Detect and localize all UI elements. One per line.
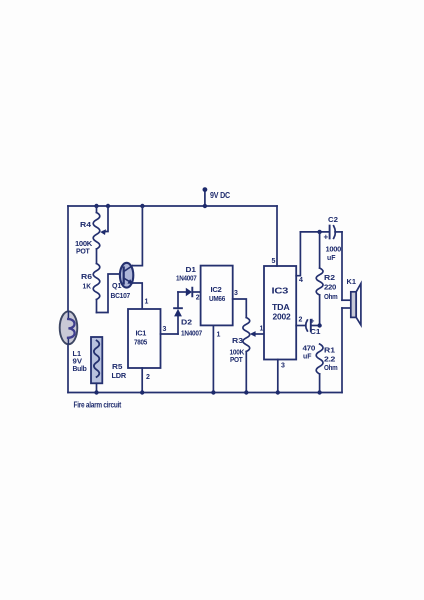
resistor R2 (220 Ohm) (316, 232, 323, 326)
node junction IC1 ground (140, 390, 144, 394)
svg-text:+: + (324, 233, 329, 242)
LDR R5 (91, 337, 102, 393)
resistor R4 (100K POT) (93, 206, 100, 264)
svg-text:1: 1 (217, 332, 221, 339)
node junction IC3 ground (276, 390, 280, 394)
diode D1 1N4007 (178, 288, 201, 297)
svg-text:7805: 7805 (134, 338, 147, 347)
svg-text:9V DC: 9V DC (210, 191, 230, 200)
svg-text:IC2: IC2 (211, 285, 222, 294)
svg-text:POT: POT (76, 247, 90, 256)
wire Q1 collector to rail (133, 206, 143, 266)
wire IC3 pin5 to rail (276, 206, 278, 266)
svg-text:POT: POT (230, 355, 243, 364)
wire 9V top rail (68, 205, 277, 207)
svg-text:4: 4 (299, 277, 303, 284)
svg-text:3: 3 (281, 363, 285, 370)
svg-text:2002: 2002 (273, 313, 292, 322)
wire R3 wiper to IC3 pin1 (250, 331, 264, 337)
node junction R1 ground (317, 390, 321, 394)
transistor Q1 (120, 263, 133, 288)
wire left rail lower (67, 344, 69, 393)
svg-text:UM66: UM66 (209, 294, 225, 303)
wire R4 wiper arm (100, 206, 108, 235)
svg-text:1: 1 (260, 326, 264, 333)
resistor R6 (1K) (93, 264, 100, 313)
node junction top rail Q1 collector (140, 204, 144, 208)
node junction C2 R2 (317, 230, 321, 234)
svg-text:uF: uF (303, 352, 312, 361)
svg-text:uF: uF (327, 253, 336, 262)
svg-text:IC3: IC3 (272, 287, 290, 296)
svg-text:D2: D2 (181, 318, 192, 327)
wire IC3 pin4 up to C2 (296, 232, 300, 276)
svg-text:2: 2 (196, 295, 200, 302)
wire IC3 pin3 to ground (277, 360, 279, 393)
wire bottom ground rail (68, 392, 342, 394)
svg-text:1K: 1K (83, 282, 92, 291)
svg-text:R3: R3 (232, 336, 243, 345)
capacitor C1 470uF (306, 320, 320, 331)
node junction top rail wiper (106, 204, 110, 208)
capacitor C2 1000uF (300, 226, 342, 239)
wire left rail upper (67, 206, 69, 312)
wire IC2 pin1 to ground (212, 325, 214, 392)
node 9V DC terminal (203, 187, 208, 208)
svg-text:Bulb: Bulb (73, 364, 88, 373)
svg-text:R5: R5 (112, 362, 123, 371)
op-amp U2 melody IC2 UM66 (201, 266, 233, 326)
svg-text:3: 3 (163, 326, 167, 333)
svg-text:Fire alarm circuit: Fire alarm circuit (74, 401, 122, 410)
svg-text:1N4007: 1N4007 (181, 329, 202, 338)
speaker K1 (342, 232, 361, 393)
diode D2 1N4007 (174, 292, 182, 334)
svg-text:Ohm: Ohm (324, 292, 338, 301)
svg-text:K1: K1 (347, 277, 357, 286)
wire IC1 pin3 out (161, 333, 179, 335)
node junction C1 R1 R2 (317, 323, 321, 327)
node junction R5 ground (94, 390, 98, 394)
wire IC1 pin2 to ground (141, 368, 143, 393)
wire IC3 pin2 to C1 (296, 325, 306, 327)
svg-text:R2: R2 (324, 273, 335, 282)
wire base jog (97, 274, 121, 313)
svg-text:R6: R6 (81, 272, 92, 281)
svg-text:Ohm: Ohm (324, 363, 338, 372)
svg-text:220: 220 (324, 283, 336, 292)
svg-text:R1: R1 (324, 346, 335, 355)
svg-text:+: + (310, 317, 315, 326)
svg-text:5: 5 (272, 258, 276, 265)
svg-text:LDR: LDR (112, 371, 127, 380)
svg-text:2: 2 (299, 317, 303, 324)
node junction top rail R4 (94, 204, 98, 208)
lamp L1 (9V bulb) (60, 311, 78, 344)
op-amp U1 regulator IC1 7805 (128, 309, 161, 368)
svg-text:IC1: IC1 (136, 329, 147, 338)
svg-text:TDA: TDA (272, 303, 290, 312)
node junction R3 ground (244, 390, 248, 394)
svg-text:BC107: BC107 (111, 291, 131, 300)
op-amp U3 amplifier IC3 TDA2002 (264, 266, 296, 360)
svg-text:R4: R4 (80, 220, 92, 229)
svg-text:C1: C1 (310, 327, 321, 336)
svg-text:1: 1 (145, 299, 149, 306)
node junction IC2 ground (211, 390, 215, 394)
svg-text:3: 3 (234, 290, 238, 297)
resistor R3 (100K POT) (243, 318, 250, 393)
svg-text:1N4007: 1N4007 (176, 274, 197, 283)
wire Q1 emitter to IC1 pin1 (132, 283, 142, 309)
svg-text:C2: C2 (328, 215, 338, 224)
resistor R1 (2.2 Ohm) (316, 344, 323, 393)
svg-text:2: 2 (146, 374, 150, 381)
svg-text:Q1: Q1 (112, 281, 122, 290)
wire IC2 pin3 to R3 (233, 299, 247, 318)
